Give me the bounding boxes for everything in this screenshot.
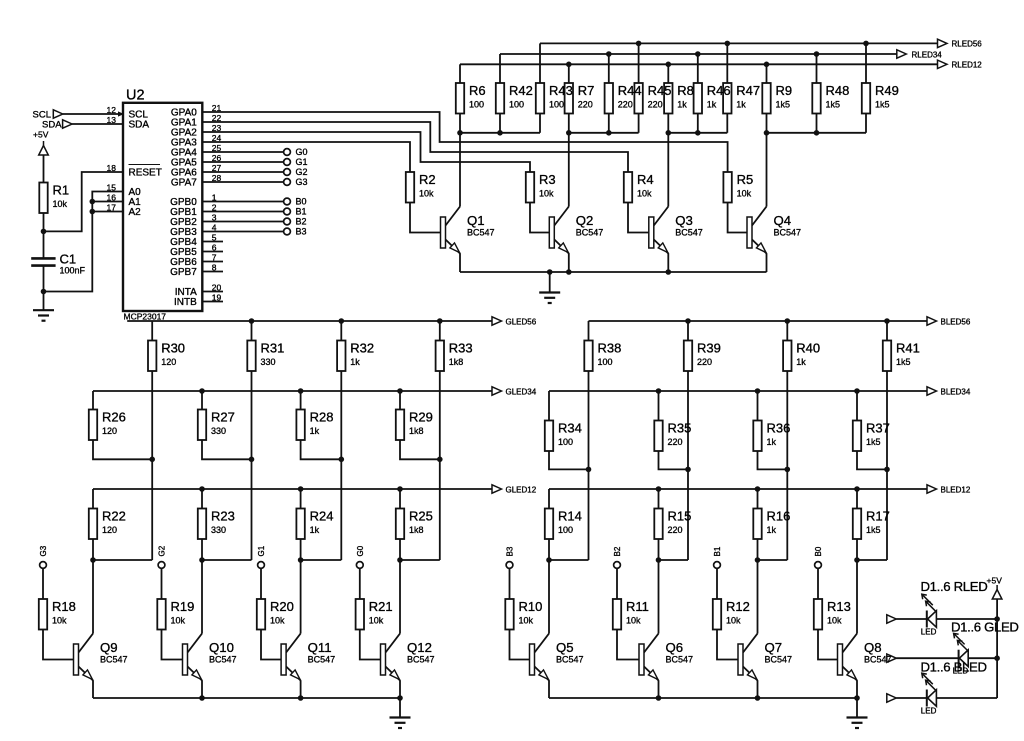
transistor Q3 [649,207,669,254]
resistor R47 [723,83,731,114]
wire R12 to Q7 base [717,630,738,660]
capacitor C1 [31,258,55,265]
GLED56 connector [492,317,502,325]
junction R1/C1/RESET [41,229,47,235]
junction collector Q7 [755,557,761,563]
resistor R30 [148,341,156,372]
pin stub GPB7 [202,271,223,273]
wire Q9 emitter [92,681,94,699]
svg-text:220: 220 [668,525,683,535]
IC U2 right pin names [0,0,1,1]
resistor R34 [545,421,553,452]
wire R3 to Q2 base [530,203,549,233]
wire R36 bottom tie [758,451,788,469]
svg-text:BC547: BC547 [666,655,694,665]
svg-text:10k: 10k [726,616,741,626]
svg-text:1k: 1k [796,357,806,367]
wire Q3 emitter [667,254,669,273]
wire group tie R6-R43 [460,132,540,134]
junction gnd stem top [547,269,553,275]
node B0 [815,562,822,569]
node B2 [284,218,291,225]
node B0 [284,198,291,205]
junction R8/RLED12 [666,62,672,68]
svg-text:R35: R35 [668,421,692,436]
transistor Q5 [530,634,550,681]
wire R22 bottom [92,539,94,560]
svg-text:120: 120 [102,426,117,436]
svg-text:1k: 1k [310,426,320,436]
wire R44 bottom [608,114,610,133]
wire gnd stem [399,698,401,718]
svg-text:R22: R22 [102,509,126,524]
wire R42 top to RLED34 [499,54,501,83]
svg-text:R42: R42 [509,83,533,98]
LED D1..6 BLED [922,673,937,706]
junction C1/A0A1A2/gnd [41,289,47,295]
wire R6 bottom [459,114,461,133]
svg-text:220: 220 [668,437,683,447]
junction R39/BLED56 [685,318,691,324]
wire net BLED56 [589,320,928,322]
svg-text:GLED12: GLED12 [506,485,537,494]
wire +5V bus [996,599,998,698]
node G0 [356,562,363,569]
svg-text:1k: 1k [767,525,777,535]
wire R42 bottom [499,114,501,133]
junction R32/GLED56 [339,318,345,324]
junction Q3 emitter [666,269,672,275]
wire R28 bottom tie [301,440,342,459]
wire R11 to Q6 base [617,630,639,660]
svg-text:R44: R44 [618,83,642,98]
wire R14 top [548,489,550,509]
svg-text:U2: U2 [126,87,145,103]
junction R41/BLED56 [884,318,890,324]
svg-text:R7: R7 [578,83,595,98]
junction R6 tie [457,130,463,136]
wire R22 top [92,489,94,509]
wire GPA5 to G1 [202,161,283,163]
wire R43 top to RLED56 [539,43,541,83]
resistor R20 [257,599,265,630]
resistor R22 [89,509,97,540]
wire GPA6 to G2 [202,171,283,173]
svg-text:R2: R2 [419,172,436,187]
wire GPB3 to B3 [202,231,283,233]
wire Q12 emitter [399,681,401,699]
wire R27 top [201,391,203,410]
resistor R28 [296,410,304,441]
wire C1 to gnd node [43,266,45,311]
BLED56 connector [927,317,937,325]
svg-text:17: 17 [107,203,117,213]
wire net GLED12 [93,488,492,490]
wire B3 to R10 [509,568,511,599]
svg-text:G2: G2 [296,167,308,177]
ground blue block [847,718,868,729]
resistor R2 [406,172,414,203]
svg-text:B0: B0 [296,197,307,207]
transistor Q10 [183,634,203,681]
wire collector tie Q8 [857,559,887,561]
svg-text:10k: 10k [737,189,752,199]
svg-text:R28: R28 [310,410,334,425]
wire A1 [92,201,123,203]
wire Q12 collector [399,560,401,634]
svg-text:R34: R34 [558,421,582,436]
wire Q5 emitter [548,681,550,699]
resistor R40 [783,341,791,372]
svg-text:R40: R40 [796,341,820,356]
resistor R39 [684,341,692,372]
wire R9 bottom [766,114,768,133]
svg-text:10k: 10k [827,616,842,626]
svg-text:10k: 10k [369,616,384,626]
wire R49 top to RLED56 [865,43,867,83]
wire R25 top [399,489,401,509]
wire emitter rail [549,697,857,699]
resistor R1 [39,183,47,214]
wire R5 to Q4 base [728,203,747,233]
pin stub INTA [202,291,223,293]
junction emitter 2 [656,695,662,701]
wire R26 bottom tie [93,440,152,459]
svg-text:R20: R20 [270,599,294,614]
svg-text:330: 330 [261,357,276,367]
wire collector tie Q12 [400,559,440,561]
junction R47/RLED56 [725,41,731,47]
svg-text:16: 16 [107,193,117,203]
svg-text:Q1: Q1 [467,213,485,228]
svg-text:R31: R31 [261,341,285,356]
wire R28 top [300,391,302,410]
wire R35 top [658,391,660,421]
svg-text:Q5: Q5 [556,640,574,655]
junction R8 tie [666,130,672,136]
wire Q1 collector [459,133,461,207]
junction collector Q11 [298,557,304,563]
junction R27/GLED34 [199,388,205,394]
wire net RLED34 [500,53,897,55]
svg-text:1k8: 1k8 [409,525,424,535]
junction R31/GLED56 [249,318,255,324]
junction R37/BLED34 [854,388,860,394]
node G2 [158,562,165,569]
junction R48/RLED34 [814,51,820,57]
wire G2 to R19 [161,568,163,599]
wire R41 bottom [886,371,888,560]
wire R4 to Q3 base [628,203,649,233]
wire Q1 emitter [459,254,461,273]
SDA connector [63,120,73,128]
svg-text:10k: 10k [52,616,67,626]
svg-text:R32: R32 [350,341,374,356]
wire emitter rail [93,697,400,699]
svg-text:R5: R5 [737,172,754,187]
svg-text:GLED34: GLED34 [506,387,537,396]
wire R20 to Q11 base [261,630,281,660]
junction R49/RLED56 [863,41,869,47]
junction R28/GLED34 [298,388,304,394]
wire R21 to Q12 base [360,630,381,660]
wire R23 bottom [201,539,203,560]
svg-text:BC547: BC547 [765,655,793,665]
svg-text:D1..6 BLED: D1..6 BLED [921,660,987,675]
node G3 [40,562,47,569]
svg-text:1k: 1k [736,100,746,110]
svg-text:R25: R25 [409,509,433,524]
svg-text:R26: R26 [102,410,126,425]
wire R29 bottom tie [400,440,440,459]
wire R15 bottom [658,539,660,560]
resistor R5 [723,172,731,203]
wire GLED to LED2 [896,657,958,659]
svg-text:1: 1 [212,193,217,203]
junction R36/BLED34 [755,388,761,394]
resistor R4 [624,172,632,203]
RLED12 connector [938,60,948,68]
resistor R15 [654,509,662,540]
wire gnd stem [856,698,858,718]
svg-text:BC547: BC547 [774,228,802,238]
wire R30 top [151,321,153,341]
transistor Q9 [74,634,94,681]
svg-text:Q2: Q2 [576,213,594,228]
svg-text:GPB7: GPB7 [170,267,197,278]
junction R46/RLED34 [695,51,701,57]
wire R33 bottom [439,371,441,560]
svg-text:R16: R16 [767,509,791,524]
svg-text:RLED12: RLED12 [952,61,983,70]
svg-text:BC547: BC547 [209,655,237,665]
svg-text:100nF: 100nF [60,266,86,276]
svg-text:1k: 1k [310,525,320,535]
svg-text:R29: R29 [409,410,433,425]
RLED56 connector [938,39,948,47]
junction R9/RLED12 [764,62,770,68]
wire R32 top [340,321,342,341]
svg-text:G2: G2 [158,545,167,556]
resistor R27 [198,410,206,441]
wire Q10 emitter [201,681,203,699]
junction emitter 2 [199,695,205,701]
svg-text:BLED12: BLED12 [941,485,971,494]
resistor R16 [753,509,761,540]
svg-text:26: 26 [212,153,222,163]
ground green block [390,718,411,729]
wire R16 top [757,489,759,509]
svg-text:10k: 10k [626,616,641,626]
svg-text:27: 27 [212,163,222,173]
svg-text:Q3: Q3 [675,213,693,228]
svg-text:28: 28 [212,173,222,183]
svg-text:R15: R15 [668,509,692,524]
junction collector Q5 [546,557,552,563]
svg-text:1k: 1k [707,100,717,110]
wire R36 top [757,391,759,421]
svg-text:120: 120 [102,525,117,535]
wire R35 bottom tie [659,451,689,469]
wire R25 bottom [399,539,401,560]
svg-text:120: 120 [161,357,176,367]
wire R47 top to RLED56 [726,43,728,83]
svg-text:G0: G0 [296,147,308,157]
svg-text:MCP23017: MCP23017 [124,312,167,322]
node G1 [258,562,265,569]
wire B1 to R12 [716,568,718,599]
wire GPA2 to R3 [202,132,530,172]
svg-text:7: 7 [212,253,217,263]
svg-text:100: 100 [598,357,613,367]
wire R41 top [886,321,888,341]
wire R34 bottom tie [549,451,589,469]
transistor Q8 [838,634,858,681]
svg-text:220: 220 [648,100,663,110]
svg-text:100: 100 [469,100,484,110]
wire collector tie Q11 [301,559,342,561]
junction R24/GLED12 [298,486,304,492]
svg-text:R6: R6 [469,83,486,98]
pin stub INTB [202,301,223,303]
svg-text:A2: A2 [129,207,142,218]
svg-text:D1..6 RLED: D1..6 RLED [921,579,988,594]
wire R16 bottom [757,539,759,560]
resistor R46 [694,83,702,114]
node B2 [614,562,621,569]
ground top block [539,293,560,304]
svg-text:330: 330 [211,525,226,535]
svg-text:BC547: BC547 [308,655,336,665]
resistor R6 [456,83,464,114]
svg-text:R9: R9 [776,83,793,98]
wire R40 bottom [786,371,788,560]
BLED12 connector [927,485,937,493]
wire R26 top [92,391,94,410]
svg-text:10k: 10k [519,616,534,626]
SCL connector [53,110,63,118]
wire B0 to R13 [817,568,819,599]
wire +5V to R1 [43,155,45,183]
junction collector Q9 [90,557,96,563]
wire GPA0 to R5 [202,112,727,172]
wire net BLED12 [549,488,927,490]
resistor R13 [814,599,822,630]
resistor R18 [39,599,47,630]
svg-text:220: 220 [578,100,593,110]
resistor R12 [713,599,721,630]
junction R26 tie [149,457,155,463]
wire R19 to Q10 base [162,630,183,660]
wire Q10 collector [201,560,203,634]
wire Q7 emitter [757,681,759,699]
svg-text:22: 22 [212,113,222,123]
svg-text:LED: LED [921,628,937,637]
wire R18 to Q9 base [43,630,74,660]
svg-text:B2: B2 [296,217,307,227]
svg-text:GPA7: GPA7 [171,178,197,189]
svg-text:G3: G3 [296,177,308,187]
svg-text:BC547: BC547 [864,655,892,665]
svg-text:220: 220 [618,100,633,110]
wire R38 top [588,321,590,341]
svg-text:R37: R37 [866,421,890,436]
resistor R32 [337,341,345,372]
svg-text:C1: C1 [60,252,77,267]
wire RLED to LED1 [896,618,927,620]
wire group tie R9-R49 [767,132,867,134]
wire GPB1 to B1 [202,211,283,213]
svg-text:R19: R19 [171,599,195,614]
wire GPA3 to R2 [202,142,410,172]
junction R17/BLED12 [854,486,860,492]
junction R44/RLED34 [606,51,612,57]
junction A2 [90,209,96,215]
svg-text:R17: R17 [866,509,890,524]
svg-text:100: 100 [558,437,573,447]
junction R37 tie [884,467,890,473]
transistor Q12 [381,634,401,681]
wire R45 top to RLED56 [638,43,640,83]
wire GPA7 to G3 [202,181,283,183]
wire collector tie Q9 [93,559,152,561]
junction R44 tie [606,130,612,136]
junction R46 tie [695,130,701,136]
resistor R35 [654,421,662,452]
svg-text:G3: G3 [39,545,48,556]
svg-text:100: 100 [549,100,564,110]
junction R15/BLED12 [656,486,662,492]
svg-text:BC547: BC547 [407,655,435,665]
svg-text:BC547: BC547 [467,228,495,238]
wire Q2 emitter [568,254,570,273]
node G2 [284,169,291,176]
junction emitter 3 [298,695,304,701]
junction R36 tie [785,467,791,473]
resistor R8 [664,83,672,114]
junction collector Q6 [656,557,662,563]
resistor R38 [584,341,592,372]
svg-text:+5V: +5V [33,129,49,139]
svg-text:19: 19 [212,293,222,303]
svg-text:R39: R39 [697,341,721,356]
wire R13 to Q8 base [818,630,838,660]
svg-text:RESET: RESET [129,168,162,179]
pin stub GPB4 [202,241,223,243]
svg-text:10k: 10k [53,199,68,209]
svg-text:10k: 10k [637,189,652,199]
wire R6 top to RLED12 [459,64,461,83]
svg-text:3: 3 [212,213,217,223]
resistor R48 [812,83,820,114]
BLED input connector [887,694,897,702]
svg-text:1k: 1k [767,437,777,447]
wire Q2 collector [568,133,570,207]
wire R14 bottom [548,539,550,560]
resistor R45 [634,83,642,114]
wire Q11 emitter [300,681,302,699]
wire R48 top to RLED34 [816,54,818,83]
wire net BLED34 [549,390,927,392]
svg-text:B3: B3 [296,227,307,237]
wire R32 bottom [340,371,342,560]
resistor R26 [89,410,97,441]
node G0 [284,149,291,156]
wire top emitter rail [460,271,767,273]
svg-text:1k: 1k [677,100,687,110]
wire R27 bottom tie [202,440,252,459]
wire Q4 emitter [766,254,768,273]
